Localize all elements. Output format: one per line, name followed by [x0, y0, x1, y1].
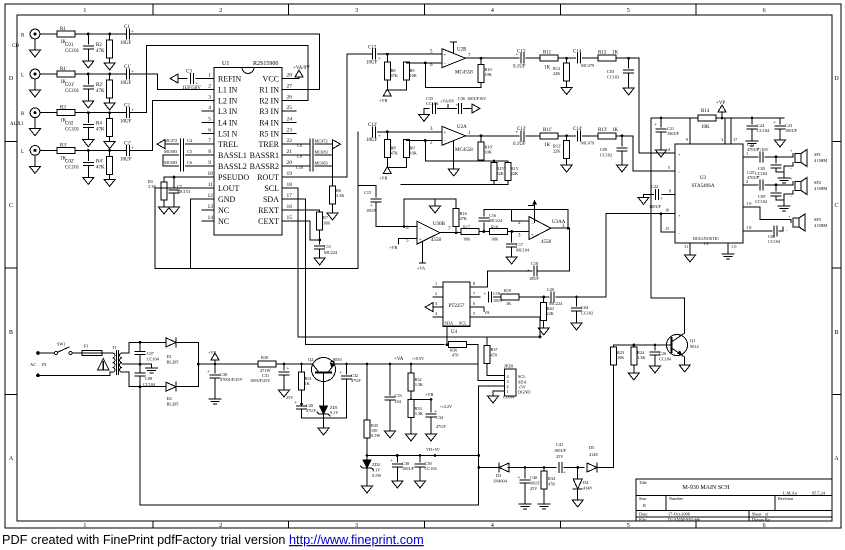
resistor R2	[109, 34, 111, 40]
svg-text:+VA: +VA	[394, 357, 404, 362]
svg-text:MC683: MC683	[315, 160, 328, 165]
svg-text:C13': C13'	[517, 127, 526, 132]
svg-text:25V: 25V	[286, 395, 294, 400]
wire collector rail x=650	[651, 118, 685, 298]
svg-text:4148: 4148	[589, 452, 598, 457]
wire	[519, 296, 549, 298]
svg-text:17-Oct-2006: 17-Oct-2006	[668, 512, 691, 517]
svg-text:21: 21	[287, 149, 293, 155]
svg-text:MC104: MC104	[516, 248, 530, 253]
ground on loop	[434, 199, 436, 203]
wire bus C8-C10	[332, 144, 334, 166]
svg-text:SP1: SP1	[814, 152, 821, 157]
svg-text:VA: VA	[484, 310, 491, 315]
resistor R13 1K	[598, 55, 616, 61]
svg-text:C15: C15	[364, 190, 371, 195]
svg-text:MC224: MC224	[549, 301, 563, 306]
svg-text:2: 2	[435, 291, 437, 296]
wire	[40, 73, 57, 75]
svg-text:R34: R34	[548, 476, 556, 481]
zener ZD2 5.1V 0.5W	[366, 456, 368, 461]
svg-text:AUX1: AUX1	[10, 122, 24, 127]
top margin ticks	[153, 4, 696, 15]
wire AC bottom to primary	[38, 372, 113, 375]
svg-text:ROUT: ROUT	[257, 173, 279, 182]
svg-text:MC479: MC479	[581, 141, 594, 146]
svg-text:0.1UF: 0.1UF	[513, 142, 526, 147]
capacitor C03 CC103	[628, 58, 630, 68]
svg-text:6: 6	[763, 8, 766, 14]
capacitor C26 CC104	[654, 345, 656, 350]
capacitor C16 MC224 in feedback riser	[483, 223, 485, 232]
svg-text:D2: D2	[167, 396, 172, 401]
svg-text:4: 4	[491, 523, 494, 529]
resistor R12' 22K	[566, 136, 568, 141]
resistor R13' 1K	[598, 133, 616, 139]
resistor R1'	[57, 71, 75, 77]
op-amp/IC U1 R2S15900 body	[214, 67, 282, 235]
wire feedback to R10'	[425, 141, 481, 162]
wire emitter to ground	[681, 355, 685, 363]
svg-text:MC4558: MC4558	[455, 148, 473, 153]
capacitor C09 CC102	[621, 136, 623, 146]
svg-text:+: +	[516, 131, 519, 136]
resistor R11' 1K	[540, 133, 558, 139]
svg-text:0.1UF: 0.1UF	[513, 65, 526, 70]
svg-text:11: 11	[208, 182, 214, 188]
wire	[377, 53, 442, 55]
svg-text:CC104: CC104	[755, 199, 768, 204]
svg-text:+: +	[516, 53, 519, 58]
svg-text:R5 IN: R5 IN	[259, 129, 279, 138]
svg-text:10K: 10K	[491, 237, 499, 242]
svg-text:+: +	[563, 471, 566, 476]
svg-text:C18: C18	[531, 261, 538, 266]
svg-text:RL205: RL205	[167, 360, 179, 365]
wire +VP rail	[651, 117, 784, 119]
svg-text:1K: 1K	[506, 301, 512, 306]
input jack J3 R-AUX1	[30, 108, 40, 118]
svg-text:B: B	[834, 330, 838, 336]
capacitor C25' 470UF pin2	[753, 184, 758, 186]
resistor R15 22K	[507, 161, 509, 164]
ground	[30, 47, 41, 57]
wire	[40, 33, 57, 35]
svg-text:10UF: 10UF	[366, 61, 378, 66]
svg-text:REFIN: REFIN	[218, 75, 241, 84]
svg-text:8: 8	[669, 188, 671, 193]
svg-text:/+8.5V: /+8.5V	[412, 356, 425, 361]
diode D3 1N4004	[499, 463, 509, 472]
svg-text:25V: 25V	[530, 486, 538, 491]
pin stubs left 1-14	[200, 79, 215, 221]
svg-text:SCL: SCL	[518, 374, 526, 379]
svg-text:−: −	[444, 140, 447, 145]
svg-text:CEXT: CEXT	[258, 217, 279, 226]
svg-text:CD: CD	[12, 44, 19, 49]
svg-text:3: 3	[435, 301, 437, 306]
svg-text:+VA/9V: +VA/9V	[293, 66, 310, 71]
switch SW1	[38, 352, 54, 354]
capacitor C5 MC683	[163, 154, 179, 156]
svg-text:L: L	[21, 150, 24, 155]
supply tick above U2B	[451, 42, 457, 54]
svg-text:SDA: SDA	[445, 321, 454, 326]
wire	[40, 112, 57, 114]
svg-text:U1: U1	[222, 61, 229, 67]
capacitor C18 10UF	[534, 266, 537, 276]
svg-text:9014: 9014	[690, 344, 699, 349]
svg-text:+: +	[444, 131, 447, 136]
svg-text:47UF: 47UF	[436, 424, 446, 429]
svg-text:20: 20	[287, 160, 293, 166]
svg-text:0.5W: 0.5W	[372, 473, 382, 478]
resistor R20 22K	[543, 297, 545, 303]
svg-text:R1: R1	[60, 27, 66, 32]
input jack J1 R-CD	[30, 29, 40, 39]
capacitor C39 CC104	[419, 456, 421, 463]
svg-text:5: 5	[668, 165, 670, 170]
svg-text:C17: C17	[516, 242, 524, 247]
svg-text:D5: D5	[589, 445, 594, 450]
wire collector up	[681, 298, 685, 336]
resistor R2'	[109, 74, 111, 80]
svg-text:+: +	[773, 121, 776, 126]
node	[87, 33, 90, 36]
svg-text:C: C	[9, 203, 13, 209]
pin stubs	[433, 287, 480, 317]
svg-text:C11: C11	[324, 244, 331, 249]
wire	[75, 73, 126, 75]
ground	[30, 87, 41, 97]
svg-text:CC104: CC104	[147, 357, 160, 362]
resistor R36 470 in SDA line	[449, 342, 467, 348]
op-amp U3AA 4558	[529, 217, 551, 240]
svg-text:R1': R1'	[60, 67, 67, 72]
VA label pin6	[480, 307, 484, 311]
resistor R7 10K	[317, 212, 323, 230]
wire output	[466, 57, 520, 59]
op-amp U2A MC4558	[442, 126, 466, 145]
svg-text:CC101: CC101	[65, 165, 80, 170]
wire rectifier output	[198, 342, 312, 386]
wire secondary bottom	[122, 372, 198, 387]
wire +VA down to R35	[366, 363, 369, 366]
capacitor C07 CC104	[139, 341, 142, 344]
power +VB below R8'	[383, 167, 391, 174]
resistor R37 470 in SCL line	[487, 337, 540, 346]
svg-text:U2A: U2A	[457, 125, 467, 130]
svg-text:R3 IN: R3 IN	[259, 107, 279, 116]
input jack J2 L-CD	[30, 69, 40, 79]
svg-text:+: +	[654, 123, 657, 128]
svg-text:C02: C02	[65, 122, 74, 127]
resistor R32 3.3K	[410, 363, 413, 366]
svg-text:R13: R13	[598, 51, 607, 56]
svg-text:15: 15	[665, 226, 669, 231]
svg-text:Title: Title	[639, 480, 647, 485]
capacitor C20 MC224	[551, 292, 554, 302]
op-amp/IC U3 STA540SA body	[675, 144, 743, 243]
transistor Q1 9014	[667, 335, 688, 356]
speaker SP1	[792, 154, 794, 157]
svg-text:11: 11	[684, 244, 688, 249]
capacitor C25 470UF/16V pin1	[753, 156, 758, 158]
svg-text:CC102: CC102	[581, 311, 593, 316]
capacitor C05 CC104	[775, 157, 777, 163]
AC terminal bottom	[36, 374, 40, 378]
resistor R5 3.3K at PSEUDO	[164, 176, 200, 178]
svg-text:8050: 8050	[333, 357, 342, 362]
svg-text:10UF: 10UF	[120, 157, 132, 162]
svg-text:A: A	[9, 456, 14, 462]
wire +5V pin2 down to VD rail and bottom bus	[479, 386, 497, 505]
svg-text:47UF: 47UF	[306, 408, 316, 413]
svg-text:1K: 1K	[612, 51, 619, 56]
capacitor C15 10UF	[358, 186, 376, 198]
svg-text:MC4558: MC4558	[455, 71, 473, 76]
svg-text:+VP: +VP	[716, 101, 725, 106]
svg-text:C07: C07	[147, 351, 155, 356]
svg-text:M-930 MAIN SCH: M-930 MAIN SCH	[682, 485, 730, 491]
svg-text:47K: 47K	[96, 89, 105, 94]
svg-text:1: 1	[435, 281, 437, 286]
capacitor C02	[87, 113, 89, 123]
capacitor C35 CC106	[433, 104, 436, 114]
svg-text:4148: 4148	[583, 486, 592, 491]
svg-text:MC683: MC683	[315, 150, 328, 155]
svg-text:BASSR1: BASSR1	[250, 151, 279, 160]
svg-text:BASSR2: BASSR2	[250, 162, 279, 171]
pin stubs U3	[662, 118, 753, 252]
resistor R6 3.3K	[332, 166, 334, 186]
svg-text:MC683: MC683	[164, 160, 177, 165]
volume IC U4 PT2257 body	[443, 282, 470, 326]
svg-text:Drawn By:: Drawn By:	[752, 517, 771, 522]
svg-text:R11: R11	[543, 51, 552, 56]
svg-text:C26: C26	[659, 351, 667, 356]
rail VD+5V	[367, 455, 479, 457]
svg-text:CC102: CC102	[600, 153, 612, 158]
resistor R30 4R7 1W	[258, 361, 276, 367]
svg-text:16: 16	[287, 204, 293, 210]
svg-text:9.1V: 9.1V	[330, 410, 339, 415]
svg-text:+: +	[196, 82, 199, 87]
right margin ticks	[832, 142, 841, 395]
svg-text:4558: 4558	[541, 240, 552, 245]
svg-text:File:: File:	[639, 517, 647, 522]
svg-text:CC104: CC104	[757, 128, 770, 133]
wire	[479, 231, 490, 233]
svg-text:PT2257: PT2257	[449, 304, 465, 309]
svg-text:1K: 1K	[544, 143, 551, 148]
svg-text:10K: 10K	[617, 355, 625, 360]
svg-text:+: +	[378, 135, 381, 140]
svg-text:1K: 1K	[305, 381, 311, 386]
svg-text:1 0: 1 0	[731, 244, 736, 249]
resistor R8' 47K	[386, 132, 388, 140]
ground below U2A	[453, 141, 455, 167]
capacitor C13' 0.1UF	[521, 131, 524, 141]
resistor R1	[57, 31, 75, 37]
svg-text:C41: C41	[556, 442, 563, 447]
svg-text:D3: D3	[496, 473, 501, 478]
svg-text:C01': C01'	[65, 83, 74, 88]
resistor R35 150 0.5W	[364, 420, 370, 438]
svg-text:F1: F1	[84, 344, 89, 349]
svg-text:22K: 22K	[511, 171, 519, 176]
svg-text:R2S15900: R2S15900	[253, 61, 278, 67]
zener ZD1 9.1V	[317, 406, 330, 416]
ground	[419, 111, 430, 121]
svg-text:+: +	[378, 57, 381, 62]
svg-text:PDF created with FinePrint pdf: PDF created with FinePrint pdfFactory tr…	[2, 533, 424, 547]
svg-text:3: 3	[208, 94, 211, 100]
svg-text:D: D	[9, 76, 14, 82]
svg-text:+: +	[339, 371, 342, 376]
supply tick above U3AA	[529, 200, 535, 222]
svg-text:R7: R7	[323, 215, 329, 220]
wire R9' top to pin2	[406, 139, 441, 142]
svg-text:7: 7	[208, 138, 211, 144]
capacitor C21 100UF	[660, 118, 662, 127]
wire row2 to pin2	[130, 74, 200, 90]
svg-text:05.5.24: 05.5.24	[812, 491, 826, 496]
svg-text:47K: 47K	[460, 216, 468, 221]
svg-text:R14: R14	[701, 109, 710, 114]
svg-text:CC104: CC104	[768, 239, 781, 244]
wire REXT to R7	[293, 210, 320, 212]
capacitor C41 100UF 25V	[559, 463, 562, 473]
wire SDA down	[293, 199, 444, 345]
svg-text:C9: C9	[297, 154, 302, 159]
wire emitter rail +VA	[335, 363, 477, 365]
svg-text:2: 2	[208, 84, 211, 90]
svg-text:2: 2	[219, 8, 222, 14]
svg-text:100UF: 100UF	[554, 448, 567, 453]
svg-text:MC153: MC153	[177, 189, 190, 194]
svg-text:+: +	[207, 370, 210, 375]
diode D5 4148	[587, 463, 597, 472]
svg-text:1UF/50V: 1UF/50V	[182, 86, 201, 91]
wire	[526, 57, 540, 59]
svg-text:REXT: REXT	[258, 206, 279, 215]
svg-text:C4: C4	[187, 138, 193, 143]
FinePrint footer text	[2, 533, 424, 547]
svg-text:4 OHM: 4 OHM	[814, 186, 827, 191]
svg-text:DGND: DGND	[518, 390, 530, 395]
svg-text:C1': C1'	[124, 65, 131, 70]
svg-text:ZD2: ZD2	[372, 462, 380, 467]
capacitor C01	[87, 34, 89, 44]
resistor R9' 10K	[403, 140, 409, 158]
resistor R3	[57, 110, 75, 116]
svg-text:SP3: SP3	[814, 217, 821, 222]
fuse F1	[72, 352, 82, 354]
svg-text:10K: 10K	[485, 72, 493, 77]
svg-text:4: 4	[491, 8, 494, 14]
svg-text:100UF/25V: 100UF/25V	[250, 378, 271, 383]
svg-text:L.M.An: L.M.An	[783, 491, 798, 496]
wire D5 up to R23	[597, 467, 614, 469]
svg-text:IN: IN	[42, 362, 47, 367]
svg-text:1K: 1K	[544, 66, 551, 71]
svg-text:5.1V: 5.1V	[372, 468, 381, 473]
svg-text:+: +	[660, 197, 663, 202]
svg-text:1 9: 1 9	[746, 201, 751, 206]
svg-text:L: L	[21, 74, 24, 79]
svg-text:L5I N: L5I N	[218, 129, 238, 138]
wire pin19 to SP3 +	[753, 207, 791, 222]
capacitor C3 at REFIN	[170, 74, 178, 83]
wire output	[440, 232, 461, 234]
svg-text:10K: 10K	[485, 150, 493, 155]
svg-text:L4 IN: L4 IN	[218, 118, 238, 127]
svg-text:CC104: CC104	[143, 382, 156, 387]
wire CEXT to C11	[293, 221, 320, 240]
title block box	[636, 479, 832, 521]
speaker SP3	[793, 214, 805, 231]
wire row1 to pin27	[130, 34, 320, 90]
wire	[75, 33, 126, 35]
svg-text:T1: T1	[112, 345, 117, 350]
svg-text:C: C	[834, 203, 838, 209]
svg-text:U2B: U2B	[457, 48, 467, 53]
wire	[377, 131, 442, 133]
svg-text:C12: C12	[368, 46, 377, 51]
capacitor C05' CC104	[775, 185, 777, 191]
svg-text:+: +	[444, 53, 447, 58]
svg-text:R3': R3'	[60, 143, 67, 148]
AC terminal top	[36, 351, 40, 355]
svg-text:470: 470	[452, 353, 458, 358]
capacitor C12 10UF	[372, 49, 375, 59]
svg-text:9: 9	[208, 160, 211, 166]
capacitor C13 0.1UF	[521, 53, 524, 63]
svg-text:8: 8	[208, 149, 211, 155]
diode D1 RL205	[166, 338, 176, 347]
wire pin15 feedback	[661, 214, 665, 232]
wire	[583, 135, 599, 137]
wire	[75, 149, 126, 151]
capacitor C20b 47UF	[300, 403, 303, 406]
resistor R10 10K	[480, 58, 482, 64]
svg-text:22K: 22K	[547, 311, 555, 316]
svg-text:Sheet of: Sheet of	[752, 512, 769, 517]
svg-text:LOUT: LOUT	[218, 184, 239, 193]
svg-text:R2: R2	[96, 43, 102, 48]
svg-text:470: 470	[491, 353, 497, 358]
svg-text:CC104: CC104	[425, 466, 438, 471]
svg-text:C2': C2'	[124, 141, 131, 146]
svg-text:19: 19	[287, 171, 293, 177]
resistor R15' 22K	[493, 161, 495, 164]
svg-text:C12': C12'	[368, 123, 377, 128]
svg-text:10K: 10K	[410, 73, 418, 78]
svg-text:C5: C5	[187, 149, 192, 154]
svg-text:R19: R19	[504, 288, 511, 293]
svg-text:RL205: RL205	[167, 402, 179, 407]
svg-text:10UF: 10UF	[366, 138, 378, 143]
svg-text:MC224: MC224	[324, 250, 338, 255]
bottom bus wire	[140, 387, 479, 505]
ground pin11	[685, 252, 696, 262]
power arrow	[464, 108, 473, 110]
wire pin4 to SDA bus	[446, 326, 448, 344]
svg-text:1: 1	[507, 389, 509, 394]
svg-text:25V: 25V	[556, 454, 564, 459]
svg-text:Size: Size	[639, 496, 646, 501]
